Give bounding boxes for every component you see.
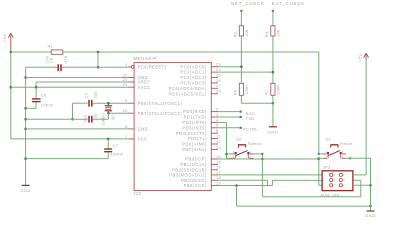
svg-text:R3: R3: [265, 31, 269, 37]
svg-text:8: 8: [125, 124, 128, 129]
svg-text:10K: 10K: [277, 29, 281, 37]
svg-text:15: 15: [216, 159, 221, 164]
svg-text:4: 4: [341, 150, 343, 154]
svg-text:5: 5: [333, 183, 335, 187]
svg-text:Reset: Reset: [340, 141, 353, 146]
svg-text:PB5(SCK): PB5(SCK): [184, 183, 207, 188]
svg-text:PC6(RESET): PC6(RESET): [138, 65, 167, 70]
svg-text:TXD: TXD: [246, 116, 255, 121]
svg-text:MEGA8-P: MEGA8-P: [133, 56, 156, 61]
svg-text:23: 23: [216, 62, 221, 67]
svg-text:PD3(INT1): PD3(INT1): [182, 125, 207, 130]
svg-text:100K: 100K: [245, 85, 249, 95]
svg-text:PC1(ADC1): PC1(ADC1): [180, 70, 207, 75]
svg-text:28: 28: [216, 89, 221, 94]
svg-text:GND: GND: [365, 213, 376, 218]
svg-text:PB3(MOSI/OC2): PB3(MOSI/OC2): [169, 173, 207, 178]
svg-text:5: 5: [216, 123, 219, 128]
svg-text:AVCC: AVCC: [138, 85, 151, 90]
svg-text:100nF: 100nF: [111, 152, 124, 157]
svg-text:1: 1: [125, 62, 128, 67]
svg-text:22p: 22p: [94, 113, 98, 120]
svg-text:13: 13: [216, 144, 221, 149]
svg-text:R2: R2: [233, 31, 237, 37]
svg-text:3: 3: [325, 150, 327, 154]
svg-text:27: 27: [216, 83, 221, 88]
svg-text:10K: 10K: [245, 29, 249, 37]
svg-text:PD7(AIN1): PD7(AIN1): [182, 147, 207, 152]
svg-text:PC3(ADC3): PC3(ADC3): [180, 81, 207, 86]
svg-text:4: 4: [249, 150, 251, 154]
svg-text:PD2(INT0): PD2(INT0): [182, 120, 207, 125]
svg-text:PD4(XCK/T0): PD4(XCK/T0): [176, 131, 207, 136]
svg-text:Switch: Switch: [248, 141, 262, 146]
svg-text:10: 10: [123, 108, 129, 113]
svg-text:4: 4: [343, 178, 345, 182]
svg-text:1: 1: [325, 155, 327, 159]
svg-text:100K: 100K: [277, 85, 281, 95]
svg-text:7: 7: [125, 134, 128, 139]
svg-text:S2: S2: [236, 137, 242, 142]
svg-text:C6: C6: [41, 92, 47, 97]
svg-text:PB6(XTAL1/TOSC1): PB6(XTAL1/TOSC1): [138, 101, 183, 106]
svg-text:PB7(XTAL2/TOSC2): PB7(XTAL2/TOSC2): [138, 111, 183, 116]
svg-text:PB0(ICP): PB0(ICP): [185, 157, 207, 162]
svg-text:PD6(AIN0): PD6(AIN0): [182, 142, 207, 147]
svg-text:VCC: VCC: [138, 137, 148, 142]
svg-text:3: 3: [333, 178, 335, 182]
svg-text:C10: C10: [83, 114, 87, 122]
svg-text:GND: GND: [268, 129, 279, 134]
svg-text:24: 24: [216, 67, 222, 72]
svg-text:PD0(RXD): PD0(RXD): [183, 109, 207, 114]
svg-text:22p: 22p: [94, 91, 98, 98]
svg-text:C8: C8: [50, 58, 54, 64]
svg-text:S1: S1: [325, 137, 331, 142]
svg-text:BAT_CHECK: BAT_CHECK: [272, 1, 305, 6]
svg-text:11: 11: [216, 134, 221, 139]
svg-text:GND: GND: [138, 127, 148, 132]
svg-text:GND: GND: [20, 188, 31, 193]
svg-text:NET_CHECK: NET_CHECK: [231, 1, 265, 6]
svg-text:12: 12: [216, 139, 221, 144]
svg-text:R7: R7: [265, 89, 269, 95]
svg-text:2: 2: [216, 107, 219, 112]
svg-text:1: 1: [233, 155, 235, 159]
svg-text:14: 14: [216, 154, 222, 159]
svg-text:26: 26: [216, 78, 221, 83]
svg-text:+5V: +5V: [358, 53, 362, 61]
svg-text:PC4(ADC4/SDA): PC4(ADC4/SDA): [169, 86, 207, 91]
svg-text:C9: C9: [84, 93, 88, 99]
svg-text:2: 2: [341, 155, 343, 159]
svg-text:PC0(ADC0): PC0(ADC0): [180, 64, 207, 69]
svg-text:3: 3: [216, 112, 219, 117]
svg-text:47K: 47K: [64, 55, 68, 63]
svg-text:IC2: IC2: [134, 191, 142, 196]
svg-text:25: 25: [216, 72, 221, 77]
svg-text:Q1: Q1: [111, 114, 115, 120]
svg-text:2: 2: [249, 155, 251, 159]
svg-text:PD1(TXD): PD1(TXD): [184, 115, 207, 120]
svg-text:PC5(ADC5/SCL): PC5(ADC5/SCL): [169, 91, 207, 96]
svg-text:100nF: 100nF: [41, 103, 54, 108]
svg-text:3: 3: [233, 150, 235, 154]
svg-text:1: 1: [333, 173, 335, 177]
svg-text:9: 9: [125, 98, 128, 103]
svg-text:JP3: JP3: [323, 165, 331, 170]
svg-text:R1: R1: [48, 44, 54, 49]
svg-text:C7: C7: [113, 143, 119, 148]
svg-text:17: 17: [216, 170, 221, 175]
svg-text:6: 6: [216, 128, 219, 133]
svg-text:PD5(T1): PD5(T1): [188, 136, 207, 141]
svg-text:PB1(OC1A): PB1(OC1A): [180, 162, 207, 167]
svg-text:R6: R6: [233, 89, 237, 95]
svg-text:AVR_ISP: AVR_ISP: [320, 193, 340, 198]
svg-text:2: 2: [343, 173, 345, 177]
svg-text:20: 20: [123, 82, 129, 87]
svg-text:RXD: RXD: [246, 111, 256, 116]
svg-text:PCTRL: PCTRL: [243, 126, 258, 131]
svg-text:PC2(ADC2): PC2(ADC2): [180, 75, 207, 80]
svg-text:+5V: +5V: [3, 33, 7, 41]
svg-text:6: 6: [343, 183, 345, 187]
svg-text:19: 19: [216, 180, 221, 185]
